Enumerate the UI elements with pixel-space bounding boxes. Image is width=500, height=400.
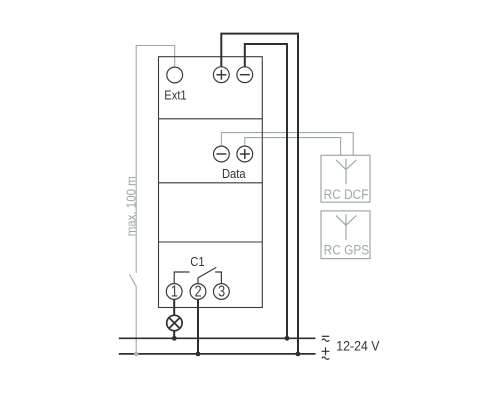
svg-text:Data: Data <box>222 166 246 181</box>
svg-text:2: 2 <box>195 282 202 299</box>
svg-text:1: 1 <box>171 282 178 299</box>
svg-text:RC DCF: RC DCF <box>324 186 369 202</box>
svg-text:RC GPS: RC GPS <box>324 242 370 258</box>
svg-text:Ext1: Ext1 <box>164 88 186 103</box>
svg-text:max. 100 m: max. 100 m <box>124 176 139 236</box>
svg-text:12-24 V: 12-24 V <box>336 338 379 354</box>
svg-text:C1: C1 <box>190 254 204 269</box>
svg-text:3: 3 <box>218 282 225 299</box>
